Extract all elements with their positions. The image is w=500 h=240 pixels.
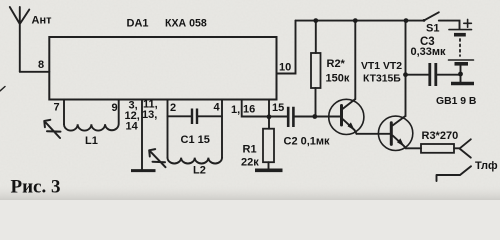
svg-text:КХА 058: КХА 058	[165, 18, 207, 30]
IC DA1 body	[49, 37, 276, 100]
svg-text:22к: 22к	[241, 157, 259, 169]
antenna	[10, 7, 30, 72]
wire VT1 base	[315, 116, 341, 118]
pin 2 lead	[167, 100, 169, 158]
node rail/VT2 collector	[404, 18, 409, 23]
battery GB1 dotted middle	[459, 39, 461, 56]
svg-text:150к: 150к	[326, 73, 350, 85]
switch S1 lever	[424, 12, 439, 20]
transistor VT2 circle	[378, 116, 412, 150]
pin 7 lead	[63, 100, 65, 125]
svg-text:13,: 13,	[142, 109, 157, 121]
node C3/battery minus	[458, 72, 463, 77]
resistor R2 body	[311, 53, 321, 88]
switch S1 left contact	[423, 19, 426, 22]
ground bar (IC pins)	[131, 169, 156, 172]
svg-text:GB1 9 В: GB1 9 В	[436, 96, 477, 107]
capacitor C3 right wire	[437, 74, 460, 76]
ground bar (battery minus)	[451, 82, 474, 85]
transistor VT2 emitter	[393, 136, 406, 149]
battery GB1 plate long 1	[449, 29, 472, 31]
svg-text:2: 2	[170, 102, 176, 114]
node C2/R2/VT1 base	[312, 114, 317, 119]
capacitor C3 left wire	[406, 74, 429, 76]
svg-text:R3*270: R3*270	[422, 130, 459, 142]
resistor R2 riser	[315, 21, 317, 53]
pin 4 lead	[221, 100, 223, 158]
ground bar (R1)	[255, 169, 283, 173]
node pin15/R1/C2	[267, 114, 272, 119]
capacitor C3 plates	[430, 63, 436, 86]
transistor VT1 collector	[343, 99, 355, 109]
transistor VT2 collector	[393, 116, 405, 125]
svg-text:7: 7	[54, 102, 60, 114]
resistor R3 body	[421, 144, 454, 153]
capacitor C1 plates	[192, 109, 197, 125]
L2 trimmer arrow	[149, 149, 165, 167]
svg-text:R1: R1	[243, 144, 257, 156]
transistor VT1 emitter	[343, 119, 357, 134]
transistor VT2 base bar	[390, 123, 393, 145]
svg-text:1,: 1,	[231, 104, 240, 116]
scan artifact left edge	[0, 87, 5, 92]
svg-text:L1: L1	[85, 135, 98, 147]
svg-text:16: 16	[243, 104, 255, 116]
battery GB1 bottom lead	[460, 66, 462, 83]
wire VT1 emitter to VT2 base	[357, 133, 391, 135]
VT1 emitter arrowhead	[348, 122, 355, 130]
capacitor C1 wires	[168, 115, 223, 117]
svg-text:Рис. 3: Рис. 3	[11, 177, 61, 198]
svg-text:VT1 VT2: VT1 VT2	[361, 61, 402, 72]
svg-text:S1: S1	[426, 23, 439, 35]
resistor R1 body	[263, 129, 274, 163]
L1 trimmer arrow	[44, 120, 60, 138]
wire antenna to pin 8	[20, 71, 50, 73]
switch S1 right wire to battery	[439, 21, 460, 29]
svg-text:C1 15: C1 15	[181, 134, 210, 146]
pins 1,16 lead	[242, 100, 269, 117]
R3 right lead	[454, 147, 460, 149]
svg-text:4: 4	[214, 102, 221, 114]
wire VT2 emitter to R3	[406, 147, 421, 149]
top rail wire	[296, 20, 425, 22]
node rail/R2	[313, 18, 318, 23]
node rail/VT1 collector	[353, 18, 358, 23]
pin 10 wire to rail	[277, 21, 296, 74]
inductor L1	[64, 100, 119, 131]
inductor L2	[168, 158, 222, 164]
VT2 emitter arrowhead	[397, 138, 404, 146]
pin 15 lead	[268, 100, 270, 129]
svg-text:10: 10	[279, 62, 291, 74]
transistor VT1 circle	[329, 99, 364, 134]
svg-text:R2*: R2*	[327, 58, 346, 70]
svg-text:C2 0,1мк: C2 0,1мк	[284, 136, 331, 148]
pins 3,11,12,13,14 ground lead	[141, 100, 143, 171]
capacitor C2 plates	[288, 107, 293, 127]
VT1 collector riser	[354, 21, 356, 100]
svg-text:15: 15	[272, 102, 284, 114]
svg-text:14: 14	[126, 121, 139, 133]
R1 bottom lead	[268, 162, 270, 169]
svg-text:Тлф: Тлф	[475, 160, 498, 172]
svg-text:0,33мк: 0,33мк	[411, 46, 447, 58]
capacitor C2 wires	[269, 116, 315, 118]
transistor VT1 base bar	[340, 106, 343, 126]
battery GB1 plate long 2	[449, 59, 474, 61]
svg-text:Ант: Ант	[32, 15, 53, 27]
phone jack upper fork	[460, 139, 471, 157]
svg-text:КТ315Б: КТ315Б	[363, 74, 401, 85]
svg-text:DA1: DA1	[127, 18, 149, 30]
battery plus sign	[464, 19, 472, 27]
junction dots	[267, 18, 463, 146]
R2 bottom lead	[315, 88, 317, 117]
svg-text:L2: L2	[193, 165, 206, 177]
phone jack lower fork	[437, 166, 472, 181]
node C3/VT2 collector riser	[403, 72, 408, 77]
svg-text:8: 8	[38, 59, 44, 71]
battery GB1 plate short 2	[455, 62, 469, 66]
VT2 collector riser	[405, 21, 407, 117]
battery GB1 plate short 1	[454, 33, 466, 37]
svg-text:9: 9	[112, 102, 118, 114]
